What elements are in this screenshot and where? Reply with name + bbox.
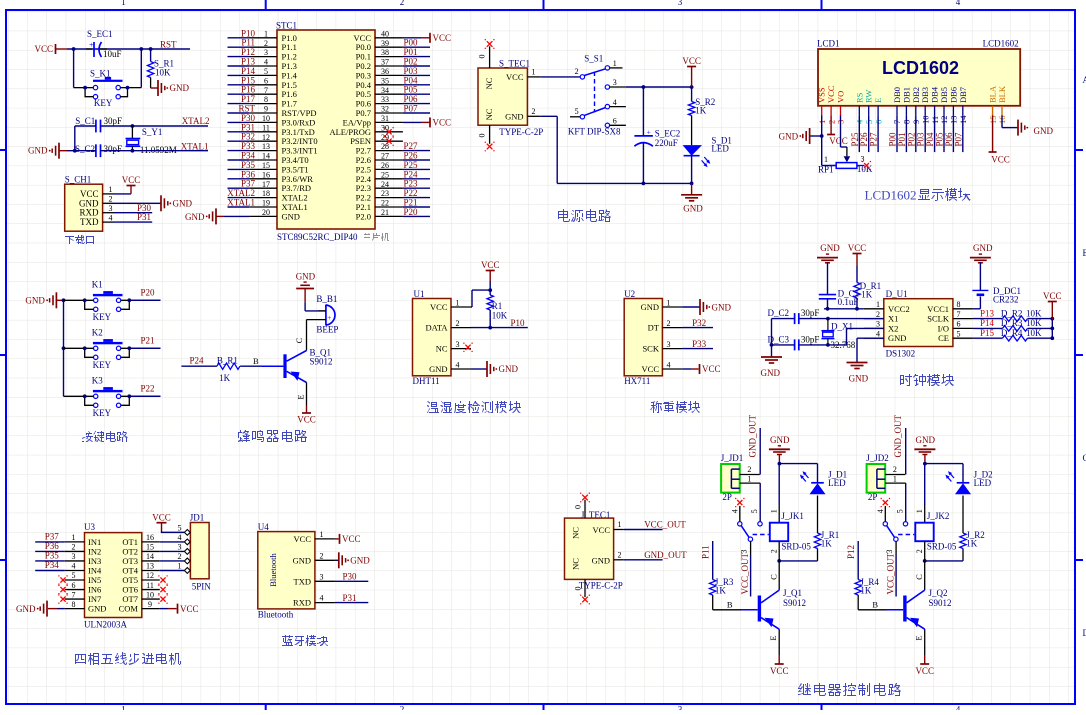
svg-text:21: 21 <box>381 208 389 217</box>
resistor D_R3 10K <box>1003 326 1028 332</box>
svg-text:18: 18 <box>262 189 270 198</box>
power port VCC J_Q2 <box>920 663 929 665</box>
svg-text:1: 1 <box>747 474 751 483</box>
svg-text:S9012: S9012 <box>310 356 333 366</box>
svg-text:TYPE-C-2P: TYPE-C-2P <box>499 127 543 137</box>
svg-text:2P: 2P <box>722 492 732 502</box>
svg-text:A: A <box>1083 75 1086 85</box>
svg-text:VCC: VCC <box>991 154 1010 164</box>
svg-text:VCC_OUT: VCC_OUT <box>740 552 750 594</box>
svg-text:14: 14 <box>262 152 270 161</box>
svg-text:J_Q2: J_Q2 <box>929 588 948 598</box>
wire relay common VCC_OUT <box>895 541 897 555</box>
svg-text:S_EC1: S_EC1 <box>87 29 113 39</box>
svg-text:LCD1: LCD1 <box>817 38 840 48</box>
svg-text:VCC: VCC <box>702 364 721 374</box>
svg-text:GND: GND <box>779 132 799 142</box>
svg-text:37: 37 <box>381 58 389 67</box>
svg-text:DB7: DB7 <box>958 87 968 103</box>
svg-text:30pF: 30pF <box>801 308 820 318</box>
svg-text:HX711: HX711 <box>624 376 650 386</box>
wire D_U1 pin3 X2 row <box>799 328 884 345</box>
svg-text:1K: 1K <box>715 586 727 596</box>
svg-text:23: 23 <box>381 189 389 198</box>
svg-text:STC1: STC1 <box>276 21 297 31</box>
led J_D2 <box>925 463 963 465</box>
svg-text:7: 7 <box>72 590 76 599</box>
wire mcu pin40 VCC <box>403 37 421 39</box>
svg-text:26: 26 <box>381 161 389 170</box>
mcu STC89C52RC body <box>277 30 375 229</box>
wire power bottom rail <box>557 182 691 184</box>
ground crystal <box>59 150 67 152</box>
svg-text:6: 6 <box>264 76 268 85</box>
svg-text:C: C <box>914 574 924 580</box>
relay lever J_JK1 <box>741 526 749 538</box>
svg-text:1: 1 <box>320 530 324 539</box>
svg-text:U2: U2 <box>624 289 635 299</box>
svg-text:GND: GND <box>1034 126 1054 136</box>
crystal D_X1 32.768 <box>827 319 829 331</box>
wire TEC1 pin2 to rail <box>540 115 557 117</box>
svg-text:BLK: BLK <box>997 85 1007 103</box>
svg-text:15: 15 <box>146 543 154 552</box>
pin S_TEC1 top shield <box>489 46 491 68</box>
svg-text:P31: P31 <box>343 593 357 603</box>
svg-text:33: 33 <box>381 95 389 104</box>
ground hx711 <box>699 299 701 315</box>
svg-text:VCC: VCC <box>481 260 500 270</box>
title stepper motor <box>75 652 181 665</box>
resistor R1 10K <box>489 290 491 295</box>
svg-text:2: 2 <box>618 550 622 559</box>
svg-text:C: C <box>769 574 779 580</box>
svg-text:GND: GND <box>820 243 840 253</box>
svg-text:J_JD1: J_JD1 <box>721 453 744 463</box>
svg-text:IN4: IN4 <box>88 565 102 575</box>
svg-text:VCC: VCC <box>770 666 789 676</box>
svg-text:8: 8 <box>957 300 961 309</box>
svg-text:E: E <box>914 635 924 640</box>
ground S_R1 <box>151 87 158 89</box>
pins D_U1 left <box>864 308 884 310</box>
svg-text:RXD: RXD <box>293 598 311 608</box>
svg-text:VCC: VCC <box>1043 291 1062 301</box>
svg-text:C: C <box>1083 453 1086 463</box>
pin S_TEC1 2 <box>527 115 540 117</box>
power port VCC pin40 <box>429 33 431 43</box>
svg-text:8: 8 <box>264 95 268 104</box>
svg-text:5: 5 <box>896 509 905 513</box>
wire CH1 pin1 to VCC <box>114 193 132 195</box>
svg-text:COM: COM <box>119 604 139 614</box>
wire XTAL1 row <box>101 150 209 152</box>
svg-text:GND: GND <box>592 556 610 566</box>
svg-text:GND: GND <box>293 555 311 565</box>
svg-text:GND: GND <box>350 556 370 566</box>
svg-text:P2.0: P2.0 <box>356 211 371 221</box>
wire led branch to coil <box>925 560 963 562</box>
pin S_TEC1 1 <box>527 76 540 78</box>
pins D_U1 right <box>953 308 973 310</box>
svg-text:3: 3 <box>876 320 880 329</box>
svg-text:2P: 2P <box>868 492 878 502</box>
svg-text:P34: P34 <box>45 560 60 570</box>
svg-text:12: 12 <box>262 133 270 142</box>
svg-text:2: 2 <box>264 39 268 48</box>
svg-text:30pF: 30pF <box>104 144 123 154</box>
svg-text:S_C1: S_C1 <box>75 116 95 126</box>
svg-text:VCC: VCC <box>506 72 524 82</box>
title bluetooth module <box>282 635 328 646</box>
wire CH1 pin3 <box>114 212 153 214</box>
wire U3 pin8 GND <box>48 608 57 610</box>
resistor J_R3 1K <box>712 541 714 580</box>
wire U2 pin2 P32 <box>682 327 713 329</box>
svg-text:GND: GND <box>712 302 732 312</box>
svg-text:1K: 1K <box>860 586 872 596</box>
svg-text:GND: GND <box>499 364 519 374</box>
svg-text:IN7: IN7 <box>88 594 101 604</box>
svg-text:2: 2 <box>770 549 779 553</box>
svg-text:VCC_OUT: VCC_OUT <box>886 552 896 594</box>
svg-text:0: 0 <box>574 587 583 591</box>
pin J_JD2 2 <box>885 474 905 476</box>
svg-text:+: + <box>647 128 651 137</box>
title download port <box>65 235 94 244</box>
ground lcd right <box>1017 120 1019 136</box>
transistor J_Q2 S9012 <box>903 596 906 622</box>
no-connect U1 pin3 <box>465 345 470 350</box>
svg-text:GND: GND <box>170 83 190 93</box>
wire led to resistor <box>817 496 819 534</box>
svg-text:VCC1: VCC1 <box>927 304 949 314</box>
wire P24 to B_R1 <box>181 365 217 367</box>
svg-text:P30: P30 <box>343 572 358 582</box>
svg-text:VCC: VCC <box>342 534 361 544</box>
ground lcd left <box>809 128 811 144</box>
wire cap left <box>86 48 92 50</box>
pins U2 <box>662 306 682 308</box>
svg-text:BEEP: BEEP <box>316 325 338 335</box>
svg-text:6: 6 <box>613 117 617 126</box>
wire U4 pin2 GND <box>335 559 339 561</box>
svg-text:3: 3 <box>678 705 683 711</box>
svg-text:GND: GND <box>25 296 45 306</box>
svg-text:38: 38 <box>381 48 389 57</box>
ground mcu pin20 <box>215 208 217 224</box>
svg-text:SCK: SCK <box>642 344 659 354</box>
svg-text:S_S1: S_S1 <box>584 54 603 64</box>
svg-text:P35: P35 <box>45 550 60 560</box>
svg-text:2: 2 <box>72 543 76 552</box>
wire pullup common <box>1051 319 1053 339</box>
pins JD1 diamonds <box>184 529 190 535</box>
svg-text:GND: GND <box>185 212 205 222</box>
svg-text:1K: 1K <box>966 539 978 549</box>
svg-text:VO: VO <box>836 91 846 103</box>
svg-text:P07: P07 <box>953 132 963 147</box>
svg-text:NC: NC <box>571 558 581 570</box>
svg-text:P21: P21 <box>141 336 155 346</box>
svg-text:31: 31 <box>381 114 389 123</box>
svg-text:2: 2 <box>876 310 880 319</box>
relay contact 5 J_JK2 <box>903 522 907 526</box>
wire lcd pin1 to pot <box>821 136 823 166</box>
wires U3 outputs to JD1 <box>160 541 185 543</box>
wire U2 pin4 VCC <box>682 368 691 370</box>
ground dht11 <box>486 361 488 377</box>
svg-text:KEY: KEY <box>94 98 113 108</box>
wire D_U1 pin2 X1 row <box>799 318 884 320</box>
svg-text:P37: P37 <box>45 531 60 541</box>
svg-text:8: 8 <box>72 600 76 609</box>
svg-text:D_R2: D_R2 <box>1001 308 1023 318</box>
pin J_JD1 2 <box>740 474 760 476</box>
wire lcd pin3 to wiper <box>840 115 842 147</box>
wire U4 pin3 P30 <box>335 580 368 582</box>
wire D_U1 pin1 row <box>824 308 864 310</box>
svg-text:22: 22 <box>381 199 389 208</box>
svg-text:1: 1 <box>121 0 126 7</box>
svg-text:1: 1 <box>915 509 924 513</box>
wire P15 row <box>973 337 1003 339</box>
svg-text:C: C <box>294 337 304 343</box>
svg-text:NC: NC <box>484 77 494 89</box>
svg-text:1: 1 <box>613 59 617 68</box>
svg-text:B: B <box>872 599 878 609</box>
svg-text:J_Q1: J_Q1 <box>783 588 802 598</box>
wire relay common VCC_OUT <box>750 541 752 555</box>
svg-text:4: 4 <box>956 705 961 711</box>
svg-text:10: 10 <box>262 114 270 123</box>
svg-text:S9012: S9012 <box>783 598 806 608</box>
pin J_JD2 1 <box>885 482 906 484</box>
svg-text:LED: LED <box>828 478 846 488</box>
label MCU chinese <box>363 233 389 241</box>
svg-text:2: 2 <box>456 319 460 328</box>
potentiometer RP1 10K <box>844 156 851 162</box>
svg-text:220uF: 220uF <box>655 138 678 148</box>
svg-text:OT2: OT2 <box>122 546 138 556</box>
svg-text:10K: 10K <box>1026 318 1042 328</box>
node J_JK1 gnd junction <box>778 462 782 466</box>
pins U3 left <box>65 541 85 543</box>
svg-text:D_C2: D_C2 <box>767 308 789 318</box>
wire collector J_Q2 <box>924 561 926 590</box>
svg-text:1: 1 <box>618 520 622 529</box>
svg-text:S_Y1: S_Y1 <box>142 127 163 137</box>
wire collector J_Q1 <box>778 561 780 590</box>
title weighing module <box>650 401 700 413</box>
svg-text:17: 17 <box>262 180 270 189</box>
svg-text:GND_OUT: GND_OUT <box>893 415 903 458</box>
svg-text:19: 19 <box>262 199 270 208</box>
svg-text:VCC: VCC <box>433 33 452 43</box>
wire VCC_OUT <box>624 529 663 531</box>
svg-text:GND: GND <box>505 111 523 121</box>
svg-text:D_X1: D_X1 <box>831 322 853 332</box>
svg-text:2: 2 <box>109 195 113 204</box>
svg-text:11: 11 <box>146 581 154 590</box>
wire U1 pin1 to VCC node <box>471 306 472 308</box>
svg-text:10K: 10K <box>1026 308 1042 318</box>
transistor B_Q1 S9012 <box>283 354 286 378</box>
mcu right pin stubs and numbers <box>375 37 403 39</box>
wire P13 row <box>973 318 1003 320</box>
svg-text:IN1: IN1 <box>88 537 101 547</box>
wire buzzer to collector <box>306 320 308 351</box>
svg-text:VCC: VCC <box>848 243 867 253</box>
svg-text:27: 27 <box>381 152 389 161</box>
transistor J_Q1 S9012 <box>758 596 761 622</box>
title keys circuit <box>82 431 128 442</box>
relay contact 4 J_JK2 <box>883 500 888 505</box>
no-connect mcu pin30 <box>386 129 391 134</box>
svg-text:VCC: VCC <box>34 44 53 54</box>
svg-text:D_R3: D_R3 <box>1001 318 1023 328</box>
svg-text:P24: P24 <box>190 356 205 366</box>
svg-text:S_TEC1: S_TEC1 <box>499 59 530 69</box>
svg-text:13: 13 <box>262 142 270 151</box>
svg-text:10K: 10K <box>155 67 171 77</box>
wire mcu pin20 GND <box>216 215 224 217</box>
svg-text:1K: 1K <box>695 106 707 116</box>
wire U1 pin4 GND <box>471 368 487 370</box>
svg-text:IN6: IN6 <box>88 585 101 595</box>
wire led to resistor <box>962 496 964 534</box>
svg-text:0: 0 <box>574 505 583 509</box>
pin J_TEC1 1 <box>614 529 624 531</box>
svg-text:P20: P20 <box>404 207 419 217</box>
svg-text:D_U1: D_U1 <box>886 289 908 299</box>
pin J_TEC1 bottom shield <box>584 579 586 597</box>
svg-text:10K: 10K <box>1026 328 1042 338</box>
svg-text:S_CH1: S_CH1 <box>65 175 92 185</box>
svg-text:SCLK: SCLK <box>927 314 950 324</box>
svg-text:IN2: IN2 <box>88 546 101 556</box>
wire lcd pin1 VSS <box>821 115 823 136</box>
wire base B_Q1 <box>262 365 283 367</box>
svg-text:7: 7 <box>264 86 268 95</box>
power port VCC bluetooth <box>339 534 341 544</box>
switch pin stubs <box>610 67 623 69</box>
relay contact 5 J_JK1 <box>758 522 762 526</box>
wire mcu pin31 VCC <box>403 121 421 123</box>
svg-text:E: E <box>768 635 778 640</box>
svg-text:J_JK1: J_JK1 <box>781 511 804 521</box>
svg-text:XTAL1: XTAL1 <box>181 141 209 151</box>
svg-text:P31: P31 <box>137 212 151 222</box>
wire U2 pin3 P33 <box>682 348 713 350</box>
svg-text:OT1: OT1 <box>122 537 138 547</box>
svg-text:4: 4 <box>731 509 740 513</box>
wire U4 pin4 P31 <box>335 602 368 604</box>
svg-text:0: 0 <box>478 55 487 59</box>
ruler zone ticks <box>265 0 267 10</box>
svg-text:3: 3 <box>613 78 617 87</box>
svg-text:12: 12 <box>146 571 154 580</box>
led S_D1 <box>683 145 702 156</box>
svg-text:10: 10 <box>146 590 154 599</box>
pin J_TEC1 2 <box>614 559 624 561</box>
svg-text:OT6: OT6 <box>122 585 138 595</box>
svg-text:2: 2 <box>747 465 751 474</box>
wire key right side <box>120 87 141 89</box>
lcd data wires and vertical net labels <box>858 115 860 152</box>
svg-text:VCC: VCC <box>829 136 848 146</box>
svg-text:+: + <box>327 314 331 322</box>
svg-text:4: 4 <box>264 58 268 67</box>
svg-text:VCC_OUT: VCC_OUT <box>644 520 686 530</box>
svg-text:1: 1 <box>72 533 76 542</box>
svg-text:P14: P14 <box>980 318 995 328</box>
wire U3 COM VCC <box>160 608 168 610</box>
svg-text:Bluetooth: Bluetooth <box>258 610 294 620</box>
svg-text:IN3: IN3 <box>88 556 101 566</box>
svg-text:25: 25 <box>381 170 389 179</box>
svg-text:JD1: JD1 <box>190 513 205 523</box>
svg-text:10K: 10K <box>492 310 508 320</box>
svg-text:LCD1602: LCD1602 <box>983 38 1019 48</box>
svg-text:S9012: S9012 <box>929 598 952 608</box>
pin J_TEC1 top shield <box>584 500 586 518</box>
svg-text:11.0592M: 11.0592M <box>140 145 177 155</box>
svg-text:STC89C52RC_DIP40: STC89C52RC_DIP40 <box>277 232 358 242</box>
relay contact 4 J_JK1 <box>737 500 742 505</box>
svg-text:4: 4 <box>667 361 671 370</box>
svg-text:OT5: OT5 <box>122 575 138 585</box>
wire CH1 pin4 <box>114 221 153 223</box>
svg-text:GND: GND <box>88 604 106 614</box>
lcd body <box>818 49 1020 106</box>
svg-text:20: 20 <box>262 208 270 217</box>
capacitor D_C1 0.1uF <box>819 294 836 296</box>
ground CH1 <box>160 195 162 211</box>
title clock module <box>900 374 954 386</box>
svg-text:5: 5 <box>750 509 759 513</box>
svg-text:K3: K3 <box>92 375 103 385</box>
svg-text:1K: 1K <box>821 539 833 549</box>
svg-text:DT: DT <box>648 323 660 333</box>
svg-text:1: 1 <box>532 68 536 77</box>
svg-text:40: 40 <box>381 29 389 38</box>
wire crystal left branch <box>74 126 76 151</box>
wire U2 pin1 GND <box>682 306 700 308</box>
wire XTAL2 row <box>75 125 96 127</box>
svg-text:3: 3 <box>109 204 113 213</box>
svg-text:CR232: CR232 <box>993 295 1019 305</box>
resistor D_R4 10K <box>1003 335 1028 341</box>
resistor S_R2 1K <box>691 87 693 102</box>
svg-text:P07: P07 <box>404 104 419 114</box>
wire key left side <box>73 49 75 88</box>
title power circuit <box>558 209 611 222</box>
svg-text:B: B <box>727 599 733 609</box>
svg-text:SRD-05: SRD-05 <box>781 542 811 552</box>
svg-text:1: 1 <box>121 705 126 711</box>
svg-text:CE: CE <box>938 333 949 343</box>
resistor B_R1 1K <box>217 363 240 369</box>
wire emitter J_Q2 <box>924 629 926 655</box>
resistor J_R2 1K <box>960 533 966 549</box>
svg-text:OT4: OT4 <box>122 565 138 575</box>
svg-text:B_B1: B_B1 <box>316 294 337 304</box>
svg-text:LED: LED <box>711 144 729 154</box>
node J_JK2 gnd junction <box>923 462 927 466</box>
svg-text:VCC: VCC <box>152 512 171 522</box>
svg-text:4: 4 <box>876 329 880 338</box>
